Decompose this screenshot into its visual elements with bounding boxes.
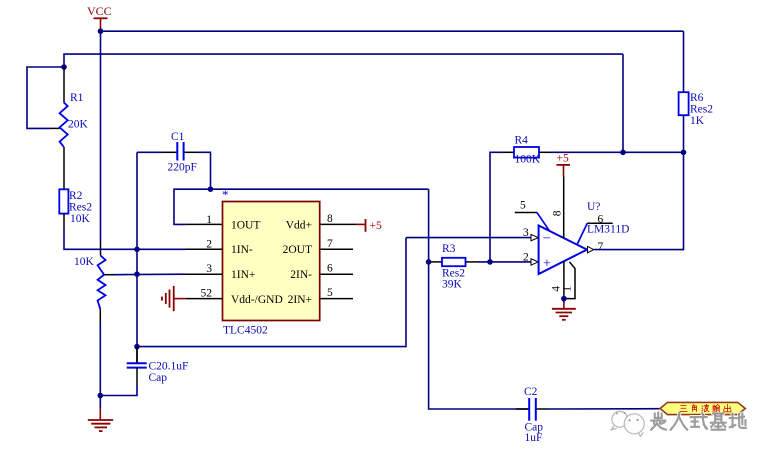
resistor R3 Res2 39K bbox=[430, 243, 478, 291]
junction C20 top node bbox=[134, 344, 140, 350]
op-amp U TLC4502 bbox=[186, 187, 357, 337]
svg-text:10K: 10K bbox=[70, 213, 91, 225]
watermark text 嵌入式基地 bbox=[651, 413, 746, 430]
svg-text:2: 2 bbox=[523, 251, 529, 263]
comparator U? LM311D bbox=[515, 177, 630, 299]
wire LM311 pin3 line bbox=[406, 237, 531, 239]
ground bottom-left bbox=[88, 396, 113, 432]
watermark logo bbox=[611, 411, 644, 436]
wire 1IN+ feedback bottom rail bbox=[137, 238, 406, 347]
wire x137 column C1-left down to C20 bbox=[136, 152, 138, 363]
svg-text:C2: C2 bbox=[524, 386, 538, 398]
svg-text:Vdd-/GND: Vdd-/GND bbox=[231, 294, 283, 306]
svg-text:Cap: Cap bbox=[149, 372, 168, 384]
wire second rail bbox=[64, 54, 623, 67]
port text 三角波输出 bbox=[680, 404, 731, 411]
svg-text:7: 7 bbox=[598, 241, 604, 253]
wire C2 to port bbox=[549, 408, 660, 410]
svg-text:1IN-: 1IN- bbox=[231, 244, 253, 256]
wire R1 rheostat loop bbox=[27, 67, 64, 128]
wire R2 bottom to IC pin2 bbox=[64, 228, 186, 249]
junction ground node bbox=[98, 393, 104, 399]
resistor R4 100K bbox=[503, 135, 551, 166]
svg-text:R6: R6 bbox=[690, 92, 704, 104]
wire pot bottom to ground node bbox=[99, 322, 101, 396]
junction R4/pin2 node bbox=[487, 259, 493, 265]
junction R3 left node bbox=[426, 259, 432, 265]
svg-text:2: 2 bbox=[206, 239, 212, 251]
svg-text:+5: +5 bbox=[370, 220, 382, 232]
junction LM311 gnd node bbox=[561, 296, 567, 302]
svg-text:1: 1 bbox=[206, 214, 212, 226]
capacitor C1 220pF bbox=[137, 131, 211, 189]
svg-text:1OUT: 1OUT bbox=[231, 219, 260, 231]
svg-text:R3: R3 bbox=[442, 243, 456, 255]
svg-text:10K: 10K bbox=[74, 256, 95, 268]
power VCC bbox=[87, 4, 112, 31]
wire pot wiper to x137 column bbox=[114, 273, 186, 276]
svg-text:R2: R2 bbox=[69, 190, 83, 202]
ground at LM311 bbox=[552, 299, 576, 320]
resistor R2 Res2 10K bbox=[59, 189, 92, 228]
svg-text:7: 7 bbox=[327, 238, 333, 250]
svg-text:+5: +5 bbox=[557, 153, 569, 165]
svg-text:Vdd+: Vdd+ bbox=[286, 219, 312, 231]
svg-text:R1: R1 bbox=[70, 92, 84, 104]
svg-text:100K: 100K bbox=[515, 153, 541, 165]
wire 1OUT node rail bbox=[174, 189, 429, 224]
svg-text:−: − bbox=[543, 232, 551, 247]
svg-text:20K: 20K bbox=[68, 119, 89, 131]
wire R3 right to LM311 pin2 bbox=[478, 261, 532, 263]
wire R4 right to R6 node bbox=[551, 151, 684, 153]
junction 1IN+ node bbox=[134, 271, 140, 277]
svg-text:39K: 39K bbox=[442, 279, 463, 291]
svg-text:VCC: VCC bbox=[87, 4, 112, 18]
svg-text:3: 3 bbox=[206, 263, 212, 275]
svg-text:2IN-: 2IN- bbox=[290, 269, 312, 281]
svg-text:U?: U? bbox=[587, 201, 600, 213]
junction R1 top node bbox=[61, 64, 67, 70]
svg-text:*: * bbox=[222, 187, 229, 202]
svg-text:8: 8 bbox=[552, 210, 564, 216]
svg-text:TLC4502: TLC4502 bbox=[223, 325, 268, 337]
wire integrator output column x=428.6 bbox=[429, 189, 529, 409]
port triangle-wave output bbox=[660, 402, 745, 414]
junction R6 bottom node bbox=[681, 150, 687, 156]
potentiometer 10K bbox=[74, 255, 114, 322]
wire C20 bottom to ground node bbox=[100, 385, 137, 396]
wire VCC column down to 10K pot bbox=[100, 31, 102, 255]
junction x623 node bbox=[620, 150, 626, 156]
svg-text:LM311D: LM311D bbox=[587, 223, 629, 235]
svg-text:1: 1 bbox=[561, 286, 573, 292]
power +5 at LM311 pin8 bbox=[557, 153, 571, 177]
power +5 at IC pin8 bbox=[356, 219, 382, 232]
resistor R1 20K bbox=[60, 67, 89, 189]
wire feedback column x=623 bbox=[622, 54, 624, 152]
resistor R6 Res2 1K bbox=[679, 31, 714, 152]
capacitor C20 0.1uF bbox=[127, 347, 189, 385]
svg-text:2IN+: 2IN+ bbox=[288, 294, 312, 306]
svg-text:3: 3 bbox=[523, 227, 529, 239]
svg-text:2OUT: 2OUT bbox=[283, 244, 312, 256]
svg-text:1uF: 1uF bbox=[525, 432, 543, 444]
wire LM311 output to R6 column bbox=[594, 152, 684, 249]
wire VCC top rail bbox=[101, 30, 684, 32]
svg-text:Res2: Res2 bbox=[69, 202, 92, 214]
svg-text:6: 6 bbox=[327, 263, 333, 275]
svg-text:Res2: Res2 bbox=[690, 104, 713, 116]
capacitor C2 1uF bbox=[516, 386, 549, 444]
svg-text:5: 5 bbox=[520, 200, 526, 212]
svg-text:1K: 1K bbox=[690, 115, 705, 127]
svg-text:+: + bbox=[543, 257, 551, 272]
svg-text:C20.1uF: C20.1uF bbox=[149, 361, 189, 373]
svg-text:1IN+: 1IN+ bbox=[231, 269, 255, 281]
junction VCC node bbox=[98, 28, 104, 34]
svg-text:C1: C1 bbox=[171, 131, 185, 143]
svg-text:R4: R4 bbox=[515, 135, 529, 147]
svg-text:52: 52 bbox=[201, 288, 213, 300]
svg-text:8: 8 bbox=[327, 213, 333, 225]
junction 1IN- node bbox=[134, 247, 140, 253]
svg-text:220pF: 220pF bbox=[168, 162, 197, 174]
wire R4 left column bbox=[490, 152, 503, 262]
junction C1/1OUT node bbox=[208, 186, 214, 192]
ground at IC pin52 bbox=[162, 286, 186, 311]
svg-text:5: 5 bbox=[327, 287, 333, 299]
